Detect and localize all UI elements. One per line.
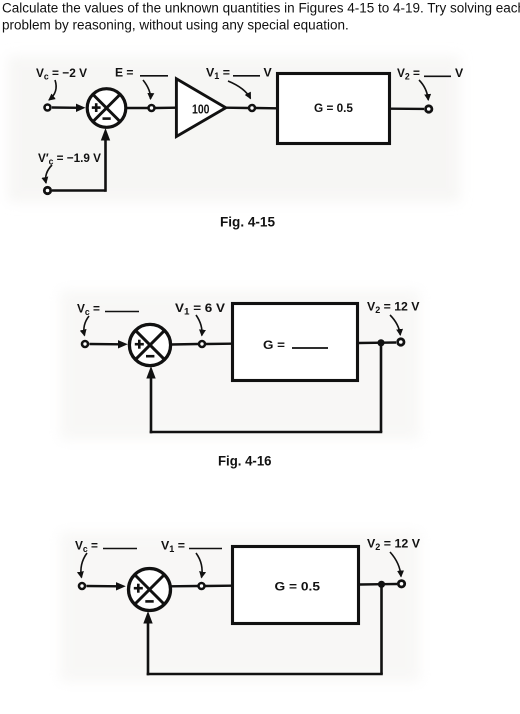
svg-text:Vc = −2 V: Vc = −2 V bbox=[36, 66, 88, 82]
block G2 G = ___ bbox=[233, 304, 358, 381]
node V'c terminal bbox=[44, 187, 50, 193]
svg-text:E =: E = bbox=[115, 66, 134, 80]
arrow to node V'c bbox=[46, 165, 52, 183]
node V2 fig2 bbox=[398, 339, 404, 345]
caption Fig. 4-15 bbox=[220, 214, 275, 230]
header paragraph bbox=[2, 1, 520, 33]
plus sign bbox=[135, 343, 144, 346]
arrow to node V2 fig2 bbox=[390, 315, 400, 335]
label E = ___ bbox=[115, 66, 168, 80]
svg-text:Fig. 4-16: Fig. 4-16 bbox=[218, 453, 272, 469]
summing junction S3 bbox=[129, 569, 171, 611]
wire Vc to summer S3 bbox=[87, 582, 126, 590]
minus sign bbox=[145, 600, 153, 603]
arrow to node V1 fig2 bbox=[196, 315, 202, 336]
scan background wash fig 4-15 bbox=[8, 56, 460, 202]
svg-text:problem by reasoning, without: problem by reasoning, without using any … bbox=[2, 18, 349, 33]
feedback wire fig2 bbox=[146, 343, 382, 434]
label V'c = -1.9 V bbox=[38, 151, 102, 167]
node V1 fig3 bbox=[199, 583, 205, 589]
label Vc = ___ fig3 bbox=[75, 539, 137, 555]
block G1 G = 0.5 bbox=[278, 74, 390, 144]
summing junction S1 bbox=[87, 89, 126, 128]
label V2 = 12 V fig3 bbox=[367, 537, 421, 553]
node Vc fig2 bbox=[82, 341, 88, 347]
node Vc fig3 bbox=[79, 583, 85, 589]
minus sign bbox=[103, 117, 111, 120]
node V2 bbox=[426, 106, 432, 112]
svg-text:V2 = 12 V: V2 = 12 V bbox=[367, 537, 421, 553]
arrow to node Vc fig2 bbox=[84, 316, 89, 336]
wire amplifier to node V1 bbox=[226, 106, 248, 109]
amplifier A1 gain 100 bbox=[176, 79, 225, 137]
wire V'c to summer minus input bbox=[52, 128, 110, 192]
wire node E to amplifier bbox=[156, 106, 177, 109]
label V2 = ___ V bbox=[397, 66, 464, 82]
arrow to node V2 fig3 bbox=[390, 552, 401, 577]
svg-text:V: V bbox=[264, 66, 273, 80]
plus sign bbox=[134, 587, 143, 590]
svg-text:V2 = 12 V: V2 = 12 V bbox=[367, 300, 420, 316]
label Vc = ___ bbox=[77, 302, 139, 318]
arrow to node V1 fig3 bbox=[196, 553, 202, 578]
svg-text:V′c = −1.9 V: V′c = −1.9 V bbox=[38, 151, 102, 167]
svg-text:Fig. 4-15: Fig. 4-15 bbox=[220, 214, 275, 230]
wire Vc to summer bbox=[52, 104, 86, 112]
arrow to node V2 bbox=[419, 80, 428, 100]
wire block G3 to node V2 fig3 with takeoff dot bbox=[360, 581, 397, 588]
block G3 G = 0.5 bbox=[233, 547, 359, 624]
wire summer S3 to node V1 fig3 bbox=[171, 585, 198, 588]
wire node V1 to block G1 bbox=[256, 107, 276, 110]
scan background wash fig 4-17 bbox=[60, 532, 420, 682]
svg-text:G = 0.5: G = 0.5 bbox=[275, 580, 321, 594]
svg-text:V: V bbox=[455, 66, 464, 80]
arrow to node E bbox=[143, 80, 151, 99]
wire Vc to summer S2 bbox=[90, 340, 128, 348]
node V2 fig3 bbox=[398, 581, 404, 587]
summing junction S2 bbox=[129, 324, 170, 365]
node V1 bbox=[249, 105, 255, 111]
svg-text:Calculate the values of the un: Calculate the values of the unknown quan… bbox=[2, 1, 520, 16]
svg-text:V1 = 6 V: V1 = 6 V bbox=[175, 301, 226, 317]
label V2 = 12 V fig2 bbox=[367, 300, 420, 316]
node V1 fig2 bbox=[199, 341, 205, 347]
arrow to node V1 bbox=[228, 81, 251, 99]
wire summer S2 to node V1 fig2 bbox=[171, 343, 198, 346]
label V1 = ___ V bbox=[206, 66, 273, 82]
label Vc = -2 V bbox=[36, 66, 88, 82]
wire summer to node E bbox=[126, 107, 148, 109]
svg-text:100: 100 bbox=[192, 102, 210, 117]
label V1 = 6 V bbox=[175, 301, 226, 317]
caption Fig. 4-16 bbox=[218, 453, 272, 469]
node E bbox=[149, 105, 155, 111]
arrow to node Vc bbox=[49, 80, 56, 100]
wire node V1 to block G2 bbox=[206, 343, 231, 346]
node Vc terminal bbox=[45, 105, 51, 111]
wire node V1 to block G3 bbox=[206, 585, 232, 588]
wire block G1 to node V2 bbox=[391, 107, 424, 110]
arrow to node Vc fig3 bbox=[81, 553, 87, 578]
svg-text:G =: G = bbox=[263, 338, 285, 352]
label V1 = ___ fig3 bbox=[161, 539, 222, 555]
feedback wire fig3 bbox=[143, 584, 382, 675]
scan background wash fig 4-16 bbox=[60, 290, 420, 440]
minus sign bbox=[146, 355, 154, 358]
svg-text:G = 0.5: G = 0.5 bbox=[314, 101, 353, 115]
plus sign bbox=[92, 106, 101, 109]
wire block G2 to node V2 fig2 with takeoff dot bbox=[359, 339, 396, 346]
